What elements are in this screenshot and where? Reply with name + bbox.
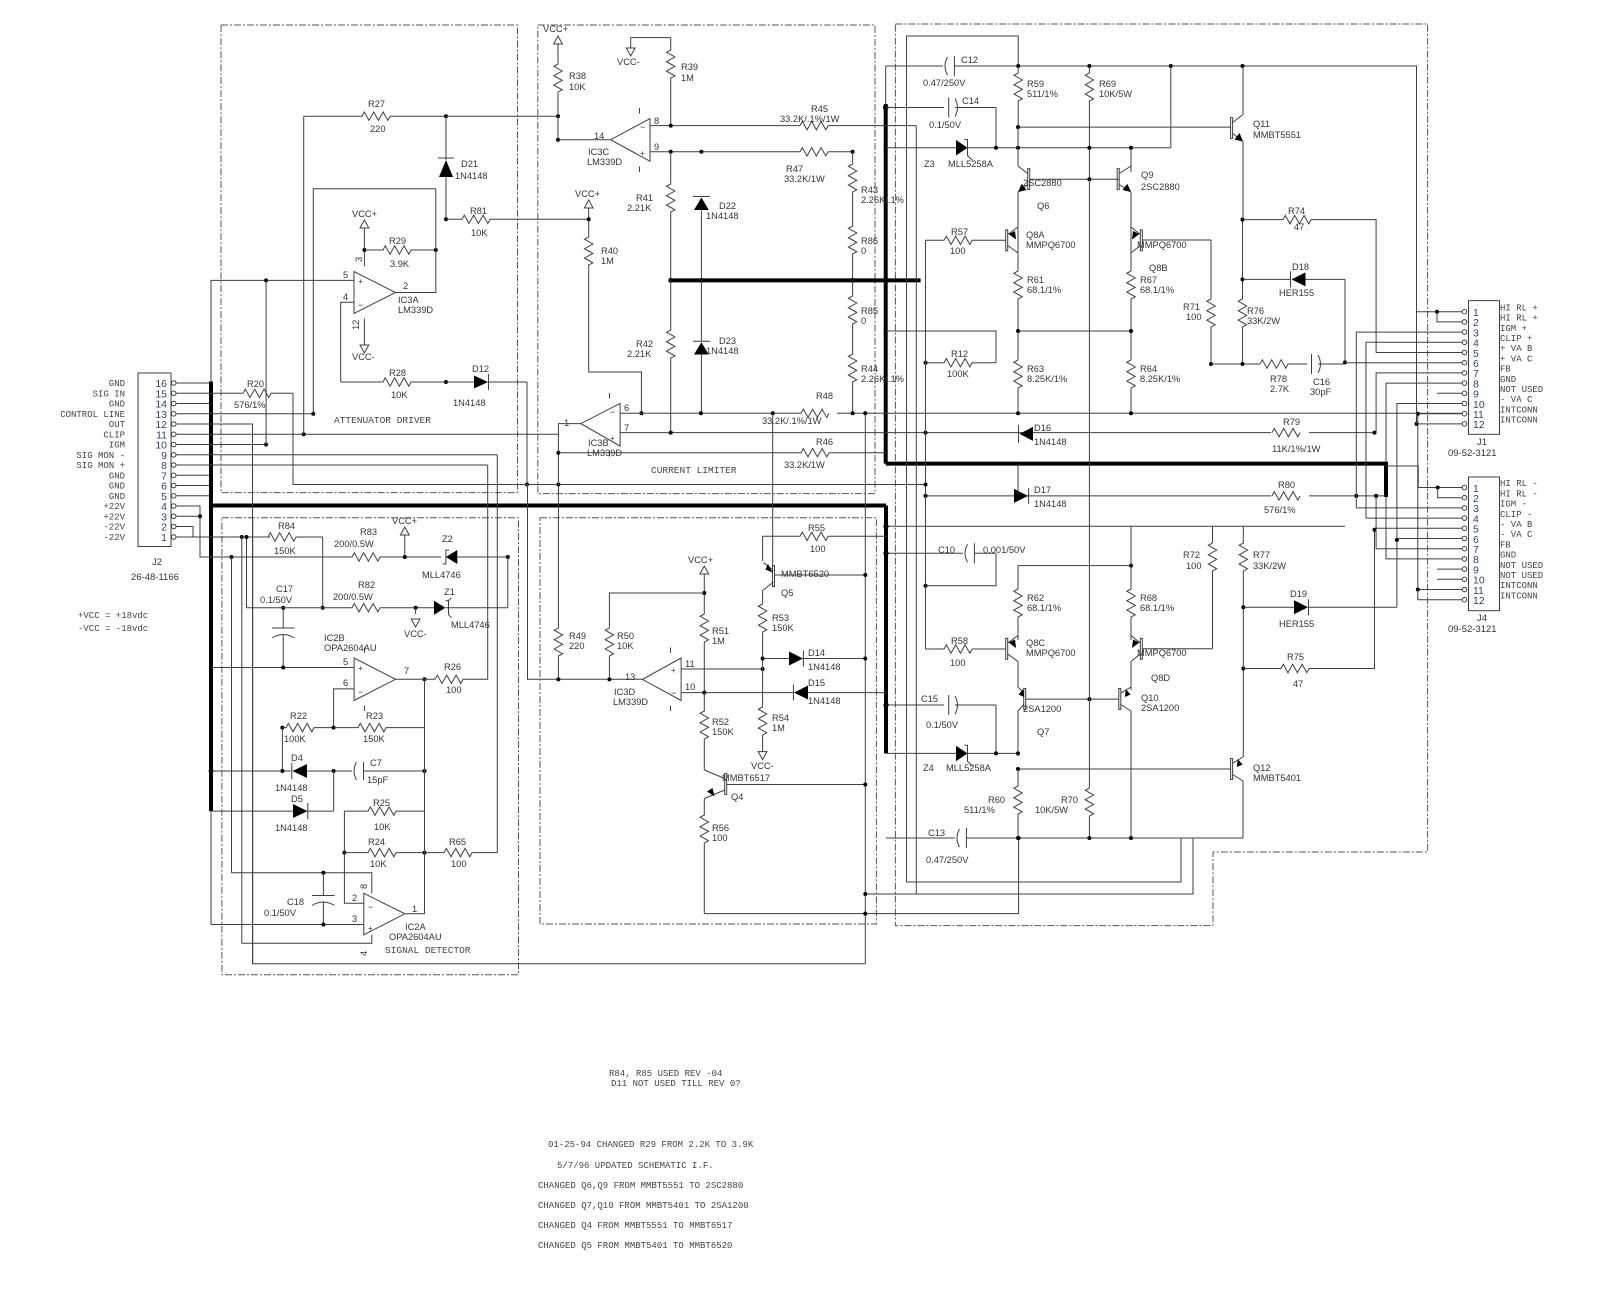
zener Z2 [422,534,508,580]
wire IC3D pin10 / D15 line [681,692,793,694]
svg-text:2SA1200: 2SA1200 [1141,703,1179,713]
svg-text:+: + [358,277,363,286]
svg-text:1N4148: 1N4148 [808,662,841,672]
transistor Q4 [704,770,865,802]
resistor R71 [1183,299,1215,364]
wire R27 into box B [446,115,558,117]
svg-text:D16: D16 [1034,423,1051,433]
svg-text:R70: R70 [1061,795,1078,805]
svg-text:R74: R74 [1288,206,1305,216]
svg-text:IC3C: IC3C [588,147,609,157]
capacitor C14 [886,96,996,130]
J1 net labels [1500,303,1543,425]
svg-text:R24: R24 [368,837,385,847]
svg-text:MMPQ6700: MMPQ6700 [1137,240,1187,250]
svg-text:Q8B: Q8B [1149,263,1168,273]
svg-text:8: 8 [359,884,369,889]
wire R12 right riser [886,331,996,363]
svg-text:R20: R20 [247,379,264,389]
svg-text:R25: R25 [373,798,390,808]
svg-text:511/1%: 511/1% [964,805,995,815]
node C13 rail R70 [1087,836,1091,840]
svg-text:Q9: Q9 [1141,170,1153,180]
svg-text:2.7K: 2.7K [1270,384,1290,394]
svg-text:R55: R55 [808,523,825,533]
resistor R57 [926,227,1006,256]
resistor R72 [1183,543,1217,649]
svg-text:- VA C: - VA C [1500,530,1533,540]
svg-text:Q8A: Q8A [1026,230,1045,240]
wire IC2A output [405,913,425,915]
node R81/R40 [587,217,591,221]
op-amp IC3B [564,393,629,458]
node D18 left [1241,277,1245,281]
node IC3B out / R46 [556,451,560,455]
svg-text:MMBT5401: MMBT5401 [1253,773,1301,783]
wire vcc rail to R83 [232,556,353,558]
svg-text:33K/2W: 33K/2W [1253,561,1286,571]
svg-text:-22V: -22V [103,533,125,543]
wire Z1 up to Z2 line [507,557,509,608]
thick bus V1 [209,383,213,811]
svg-text:R67: R67 [1140,275,1157,285]
wire Q8C verticals [1017,636,1019,685]
svg-text:1N4148: 1N4148 [455,171,488,181]
node thick bus top [883,105,889,111]
svg-text:12: 12 [1473,595,1485,607]
transistor Q8B [1131,227,1211,273]
J4 pin circles [1462,485,1467,602]
J2 pin7 GND stub [176,474,211,476]
wire R82 supply riser [246,537,248,608]
resistor R83 [334,527,441,561]
wire J1 pin6 [1345,362,1462,364]
node R24/R65 [423,851,427,855]
capacitor C18 [264,873,335,925]
svg-text:11: 11 [685,659,695,669]
wire IC2A pin4 [242,935,372,943]
wire J1 pin10 [1397,404,1462,608]
svg-text:R79: R79 [1283,417,1300,427]
wire R50 feed [609,593,704,628]
VCC+ arrow Z2 [392,516,417,557]
node R44/pin6 [851,411,855,415]
svg-text:01-25-94 CHANGED R29 FROM 2.2K: 01-25-94 CHANGED R29 FROM 2.2K TO 3.9K [548,1140,754,1150]
svg-text:13: 13 [625,672,635,682]
resistor R56 [700,799,729,914]
svg-text:OPA2604AU: OPA2604AU [324,643,377,653]
svg-text:68.1/1%: 68.1/1% [1140,603,1174,613]
svg-text:IC3D: IC3D [614,687,635,697]
wire IC2A pin3 [211,924,364,926]
svg-text:GND: GND [109,379,125,389]
wire J1 pin7 [1376,373,1462,433]
node H3/R41 [668,278,673,283]
svg-text:10K: 10K [370,859,387,869]
wire D12 out down [526,382,528,485]
diode D14 [763,648,866,672]
svg-text:100: 100 [810,544,826,554]
svg-text:HER155: HER155 [1279,619,1314,629]
svg-text:3.9K: 3.9K [390,259,410,269]
svg-text:R51: R51 [712,626,729,636]
svg-text:2: 2 [403,281,408,291]
resistor R68 [1127,589,1174,640]
wire J4 pin10 stub [1437,578,1462,580]
svg-text:7: 7 [404,666,409,676]
svg-text:2SC2880: 2SC2880 [1141,182,1180,192]
wire R68 riser to rail [1130,526,1132,589]
svg-text:0.1/50V: 0.1/50V [926,720,959,730]
J1 pin numbers [1473,307,1485,431]
wire Q8D verticals [1130,636,1132,691]
resistor R40 [585,237,642,413]
wire IC3C output pin14 [558,139,611,141]
svg-text:MMBT5551: MMBT5551 [1253,130,1301,140]
wire J4 pin1 [1386,466,1462,488]
node Z3/C14 [994,146,998,150]
node pin6/Q5col [771,411,775,415]
resistor R62 [1014,589,1061,640]
node base rail/R69 [1087,177,1091,181]
resistor R42 [627,280,675,432]
zener Z3 [886,140,1171,170]
svg-text:10K: 10K [617,641,634,651]
svg-text:10K: 10K [471,228,488,238]
node rail/R59 [1016,64,1020,68]
svg-text:CHANGED Q4 FROM MMBT5551 TO MM: CHANGED Q4 FROM MMBT5551 TO MMBT6517 [538,1221,732,1231]
svg-text:IGM: IGM [109,441,125,451]
wire R38 to pin14 [557,116,559,140]
resistor R24 [344,837,424,869]
svg-text:R71: R71 [1183,302,1200,312]
svg-text:MLL4746: MLL4746 [451,620,490,630]
wire R59col down to Q6 [1017,127,1019,166]
svg-text:D12: D12 [472,364,489,374]
svg-text:MLL4746: MLL4746 [422,570,461,580]
resistor R79 on pin7 line [1271,417,1321,454]
svg-text:CHANGED Q7,Q10 FROM MMBT5401 T: CHANGED Q7,Q10 FROM MMBT5401 TO 2SA1200 [538,1201,749,1211]
transistor Q5 [763,536,866,604]
svg-text:Q10: Q10 [1141,693,1159,703]
svg-text:GND: GND [1500,551,1516,561]
svg-text:Q6: Q6 [1037,201,1049,211]
svg-text:R72: R72 [1183,550,1200,560]
svg-text:1N4148: 1N4148 [1034,437,1067,447]
svg-text:1N4148: 1N4148 [453,398,486,408]
svg-text:12: 12 [351,320,361,330]
svg-text:R60: R60 [988,795,1005,805]
op-amp IC3D [613,648,695,712]
svg-text:R85: R85 [861,306,878,316]
vertical supply wire left [231,557,233,873]
resistor R20 [176,379,293,410]
svg-text:R75: R75 [1287,652,1304,662]
svg-text:R44: R44 [861,364,878,374]
svg-text:R52: R52 [712,717,729,727]
svg-text:6: 6 [624,403,629,413]
connector J1 [1448,301,1500,459]
connector J2 [131,373,179,583]
svg-text:68.1/1%: 68.1/1% [1140,285,1174,295]
svg-text:R39: R39 [681,62,698,72]
wire J1 pin11 [1418,414,1462,590]
resistor R44 [848,354,904,413]
capacitor C12 [886,55,1417,88]
wire pin6 down to Q5 [772,413,774,565]
wire IC3B output down to R46 [558,424,580,628]
wire box G left edge [253,518,866,964]
resistor R69 [1085,66,1132,179]
node C13 rail Q10 [1129,836,1133,840]
diode D19 [1243,589,1397,629]
svg-text:D15: D15 [808,678,825,688]
svg-text:+: + [358,664,363,673]
svg-text:100: 100 [950,658,966,668]
wire R20 out down [292,393,294,484]
wire x1018 H2 to D17 [1017,464,1019,496]
capacitor C16 [1310,354,1345,397]
wire Q9 emitter down [1130,192,1132,269]
svg-text:GND: GND [1500,375,1516,385]
svg-text:C17: C17 [276,584,293,594]
svg-text:INTCONN: INTCONN [1500,581,1538,591]
svg-text:1: 1 [412,904,417,914]
svg-text:2.26K/.1%: 2.26K/.1% [861,374,904,384]
VCC+ top of current limiter [543,24,568,64]
wire R27 left leg [303,116,305,434]
node R29 right [434,248,438,252]
thick bus V4 [884,506,888,754]
resistor R77 [1239,526,1286,757]
svg-text:D11 NOT USED TILL REV 0?: D11 NOT USED TILL REV 0? [611,1079,741,1089]
node R39/pin8 [669,124,673,128]
wire IC3C pin8 / R45 line [650,125,800,127]
svg-text:R42: R42 [636,339,653,349]
node R28/D21 [444,380,448,384]
svg-text:30pF: 30pF [1310,387,1332,397]
svg-text:0.1/50V: 0.1/50V [260,595,293,605]
svg-text:R84: R84 [278,521,295,531]
resistor R51 [700,614,729,693]
svg-text:SIG MON -: SIG MON - [76,451,125,461]
connector J4 [1448,477,1500,635]
wire channel vertical x906 [906,36,908,882]
resistor R45 [780,104,916,130]
svg-text:C14: C14 [962,96,979,106]
node Q4 base megawire [863,783,867,787]
wire J1 pin5 [1376,352,1462,354]
svg-text:R76: R76 [1247,306,1264,316]
wire J4 pin12 [1418,590,1462,600]
resistor R75 [1243,530,1374,689]
wire Q9 collector riser [1170,66,1172,148]
svg-text:5: 5 [343,657,348,667]
svg-text:J1: J1 [1477,437,1487,448]
svg-text:100: 100 [1186,312,1202,322]
svg-text:SIG MON +: SIG MON + [76,461,125,471]
svg-text:3: 3 [354,257,364,262]
svg-text:1N4148: 1N4148 [706,346,739,356]
svg-text:INTCONN: INTCONN [1500,591,1538,601]
node R50/IC3D out [607,677,611,681]
wire sig mon + pin8 [176,464,488,466]
svg-text:MMBT6517: MMBT6517 [722,773,770,783]
svg-text:LM339D: LM339D [613,697,648,707]
transistor Q10 [1119,687,1179,713]
zener Z4 [886,745,1018,773]
svg-text:Z2: Z2 [442,534,453,544]
svg-text:INTCONN: INTCONN [1500,405,1538,415]
node pin9/D22col [699,150,703,154]
node x925/pin7 line [924,483,928,487]
wire Q12 collector down [1242,781,1244,838]
resistor R80 [1264,480,1309,515]
svg-text:11K/1%/1W: 11K/1%/1W [1272,444,1321,454]
op-amp IC3C [587,108,659,172]
svg-text:0: 0 [861,246,866,256]
resistor R25 [344,798,424,853]
diode D4 [209,753,334,793]
J1 pin circles [1462,309,1467,426]
svg-text:R81: R81 [470,206,487,216]
svg-text:HI RL +: HI RL + [1500,303,1538,313]
svg-text:100: 100 [950,246,966,256]
wire IC3A output [396,189,436,293]
svg-text:R83: R83 [360,527,377,537]
svg-text:VCC+: VCC+ [392,516,417,526]
resistor R39 [667,38,699,126]
node pin10/R51 [702,691,706,695]
svg-text:100: 100 [1186,561,1202,571]
svg-text:SIGNAL DETECTOR: SIGNAL DETECTOR [385,945,471,956]
wire R69/R70 column [1088,179,1090,788]
node R64/pin6 line [1129,411,1133,415]
svg-text:NOT USED: NOT USED [1500,571,1543,581]
wire -22V pin2 join [176,527,193,538]
transistor Q8C [1006,636,1076,662]
svg-text:−: − [368,902,373,912]
svg-text:150K: 150K [712,727,735,737]
svg-text:1: 1 [564,418,569,428]
node pin9/R39col [669,150,673,154]
resistor R53 [758,604,794,669]
svg-text:R56: R56 [712,823,729,833]
transistor Q8A [1006,227,1076,253]
svg-text:511/1%: 511/1% [1027,89,1058,99]
resistor R61 [1014,271,1061,360]
svg-text:LM339D: LM339D [587,157,622,167]
wire +22V pins 4,3 [176,506,232,557]
wire VCC+/R40 node [575,189,600,237]
wire base rail Q6-Q9 [1030,178,1120,180]
svg-text:SIG IN: SIG IN [93,389,125,399]
node megawire/pin6 [863,411,867,415]
wire J1 pin2 [1437,312,1462,322]
wire feedback column [424,679,426,914]
wire R72 riser [1212,526,1214,543]
wire pin4 rail up [241,537,243,943]
svg-text:R38: R38 [569,71,586,81]
wire J4 pin3 [1356,507,1462,509]
svg-text:R47: R47 [786,164,803,174]
svg-text:15pF: 15pF [367,775,389,785]
svg-text:R23: R23 [366,711,383,721]
svg-text:2.21K: 2.21K [627,203,652,213]
svg-text:1: 1 [161,532,167,544]
resistor R48 [762,391,837,426]
svg-text:2.26K/.1%: 2.26K/.1% [861,195,904,205]
diode D23 [693,280,739,413]
svg-text:47: 47 [1294,222,1304,232]
svg-text:-22V: -22V [103,523,125,533]
svg-text:C18: C18 [287,897,304,907]
J2 pin5 GND stub [176,495,211,497]
resistor R85 [848,280,878,354]
svg-text:VCC+: VCC+ [575,189,600,199]
svg-text:CHANGED Q5 FROM MMBT5401 TO MM: CHANGED Q5 FROM MMBT5401 TO MMBT6520 [538,1241,732,1251]
node H3/D22 [699,278,704,283]
resistor R54 [758,669,789,748]
node rail/Q9 riser [1169,64,1173,68]
svg-text:R58: R58 [951,636,968,646]
svg-text:MMPQ6700: MMPQ6700 [1026,648,1076,658]
node Q5 base megawire [863,573,867,577]
svg-text:−: − [640,122,645,132]
op-amp IC2A [352,884,442,956]
dashed box output stage [895,24,1427,926]
wire J4 pin2 [1438,488,1463,498]
wire D17/R80 line [926,495,1387,497]
svg-text:10K: 10K [569,82,586,92]
wire Q10 verticals [1130,687,1132,838]
svg-text:R59: R59 [1027,79,1044,89]
svg-text:HER155: HER155 [1279,288,1314,298]
J2 pin circles [171,381,176,540]
svg-text:C12: C12 [961,55,978,65]
wire J1 pin1 [1417,66,1463,312]
svg-text:IGM -: IGM - [1500,500,1527,510]
svg-text:ATTENUATOR DRIVER: ATTENUATOR DRIVER [334,415,431,426]
svg-text:D17: D17 [1034,485,1051,495]
svg-text:R61: R61 [1027,275,1044,285]
svg-text:1N4148: 1N4148 [275,823,308,833]
node R22/R23/pin6 [332,726,336,730]
node R53/D14 [761,657,765,661]
wire megawire right edge [864,413,866,963]
svg-text:68.1/1%: 68.1/1% [1027,285,1061,295]
node R80/J4 pin3 riser [1354,494,1358,498]
svg-text:1M: 1M [601,256,614,266]
svg-text:1M: 1M [681,73,694,83]
wire J1 pin12 riser [1416,312,1418,424]
resistor R22 [280,711,333,744]
svg-text:R41: R41 [636,193,653,203]
node pin11/R53 col [761,667,765,671]
wire control line pin13 [176,413,313,415]
svg-text:68.1/1%: 68.1/1% [1027,603,1061,613]
svg-text:R48: R48 [816,391,833,401]
svg-text:4: 4 [359,951,369,956]
wire IC3C pin9 line [650,151,800,153]
svg-text:VCC+: VCC+ [543,24,568,34]
node R83/VCC [403,555,407,559]
svg-text:VCC+: VCC+ [352,209,377,219]
node D17 line left [924,494,928,498]
svg-text:R65: R65 [449,837,466,847]
svg-text:C13: C13 [928,828,945,838]
wire IC2B pin6 [334,689,355,728]
